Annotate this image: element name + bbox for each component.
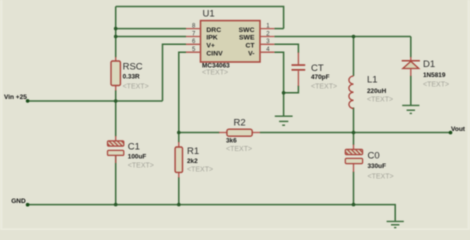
- svg-text:L1: L1: [367, 75, 378, 86]
- svg-text:<TEXT>: <TEXT>: [423, 81, 449, 88]
- svg-text:3k6: 3k6: [226, 138, 237, 145]
- junction Vin/RSC node: [114, 99, 118, 103]
- svg-text:100uF: 100uF: [128, 153, 147, 160]
- resistor R2: [219, 129, 260, 136]
- wire C0 top stem: [353, 133, 355, 146]
- svg-text:1N5819: 1N5819: [423, 72, 446, 79]
- junction C1 ground node: [114, 203, 118, 207]
- wire Vout rail: [260, 132, 451, 134]
- svg-text:<TEXT>: <TEXT>: [128, 163, 154, 170]
- svg-text:470pF: 470pF: [311, 74, 330, 81]
- ground symbol bottom right: [387, 221, 404, 227]
- terminal GND: [26, 203, 30, 207]
- wire left vertical from top to RSC: [115, 7, 117, 58]
- wire D1 bottom to ground: [410, 76, 412, 106]
- svg-text:DRC: DRC: [206, 27, 221, 34]
- junction feedback node: [177, 131, 181, 135]
- svg-text:MC34063: MC34063: [202, 62, 230, 69]
- svg-text:IPK: IPK: [206, 35, 217, 42]
- junction Vout/C0 node: [352, 131, 356, 135]
- svg-text:C1: C1: [128, 141, 140, 152]
- wire pin 5 CINV down to feedback node: [179, 52, 186, 132]
- capacitor C0 (polarized): [345, 145, 362, 173]
- wire pin 2 SWE switch node to D1: [274, 36, 410, 38]
- U1 pin stubs left (8,7,6,5): [186, 29, 201, 53]
- resistor RSC: [111, 57, 120, 91]
- inductor L1: [349, 76, 354, 108]
- svg-text:0.33R: 0.33R: [123, 74, 140, 81]
- svg-text:CT: CT: [245, 43, 255, 50]
- svg-text:CINV: CINV: [206, 50, 223, 57]
- wire CT bottom to ground: [284, 86, 299, 117]
- wire Vin rail: [28, 100, 163, 102]
- junction C0 ground node: [352, 203, 356, 207]
- svg-text:2k2: 2k2: [187, 158, 198, 165]
- wire top loop DRC node to SWC riser: [116, 7, 284, 29]
- U1 pin stubs right (1,2,3,4): [260, 29, 274, 53]
- wire L1 bottom to Vout rail: [353, 108, 355, 133]
- svg-text:SWC: SWC: [239, 27, 255, 34]
- wire D1 top: [410, 37, 412, 58]
- svg-text:220uH: 220uH: [367, 88, 387, 95]
- junction switch node L1: [352, 35, 356, 39]
- capacitor CT: [292, 53, 306, 87]
- svg-text:<TEXT>: <TEXT>: [367, 97, 393, 104]
- svg-text:V-: V-: [248, 50, 254, 57]
- svg-text:330uF: 330uF: [368, 163, 387, 170]
- op IC U1 MC34063 body: [201, 21, 261, 62]
- svg-text:GND: GND: [11, 198, 26, 205]
- svg-text:<TEXT>: <TEXT>: [311, 84, 337, 91]
- wire C1 bottom to GND rail: [115, 155, 117, 205]
- svg-text:Vout: Vout: [451, 126, 466, 133]
- svg-text:<TEXT>: <TEXT>: [187, 167, 213, 174]
- svg-text:<TEXT>: <TEXT>: [202, 70, 228, 77]
- wire R1 top: [178, 133, 180, 143]
- wire GND rail: [28, 205, 396, 221]
- junction CT ground node: [282, 91, 286, 95]
- wire pin 7 IPK to left vertical: [116, 36, 186, 38]
- wire R1 bottom: [178, 177, 180, 205]
- wire L1 top: [353, 37, 355, 77]
- svg-text:C0: C0: [368, 151, 380, 162]
- wire RSC bottom to C1 top: [115, 90, 117, 137]
- svg-text:V+: V+: [206, 43, 215, 50]
- svg-text:SWE: SWE: [239, 35, 255, 42]
- ground symbol below CT: [275, 116, 293, 125]
- svg-text:R2: R2: [234, 117, 246, 128]
- wire pin 8 DRC to left vertical: [116, 28, 186, 30]
- junction IPK node: [114, 35, 118, 39]
- terminal Vin: [26, 99, 30, 103]
- diode D1: [402, 57, 420, 76]
- wire pin 3 CT down to capacitor: [274, 44, 298, 53]
- capacitor C1 (polarized): [108, 136, 124, 163]
- junction DRC node: [114, 27, 118, 31]
- wire feedback node to R2: [179, 132, 220, 134]
- svg-text:CT: CT: [311, 63, 324, 74]
- svg-text:<TEXT>: <TEXT>: [368, 174, 394, 181]
- svg-text:RSC: RSC: [123, 61, 143, 72]
- resistor R1: [175, 142, 182, 178]
- junction R1 ground node: [177, 203, 181, 207]
- wire pin 4 V- down: [274, 52, 283, 93]
- svg-text:R1: R1: [187, 146, 199, 157]
- ground symbol below D1: [402, 105, 419, 113]
- wire pin 1 SWC to riser: [274, 28, 283, 30]
- wire pin 6 V+ down to Vin rail: [163, 44, 187, 101]
- wire C0 bottom stem: [353, 172, 355, 205]
- terminal Vout: [449, 131, 453, 135]
- svg-text:D1: D1: [423, 59, 435, 70]
- svg-text:<TEXT>: <TEXT>: [123, 83, 149, 90]
- svg-text:Vin +25: Vin +25: [4, 94, 27, 101]
- svg-text:U1: U1: [203, 9, 215, 20]
- svg-text:<TEXT>: <TEXT>: [226, 146, 252, 153]
